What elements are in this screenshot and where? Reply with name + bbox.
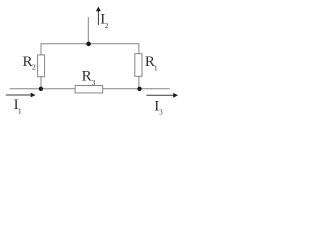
node: top junction dot [86,42,91,47]
resistor R2 [38,55,45,77]
svg-text:3: 3 [92,78,96,87]
arrow: current I2 (upward) [96,7,101,25]
wire: top horizontal bus [41,43,139,45]
svg-text:2: 2 [105,21,109,30]
label I3 [154,98,163,116]
label I1 [14,97,22,116]
wire: right branch vertical (top wire to R1 top) [138,44,140,54]
svg-text:R: R [82,69,92,85]
svg-text:2: 2 [32,62,36,71]
resistor R1 [135,54,142,77]
svg-text:1: 1 [18,107,22,116]
wire: left branch vertical (R2 bottom to bottom bus) [40,77,42,89]
resistor R3 [75,86,103,93]
arrow: current I3 (rightward, bottom-right) [147,93,179,98]
label I2 [100,12,109,30]
wire: right branch vertical (R1 bottom to bottom bus) [138,76,140,89]
node: bottom-left junction dot [39,87,43,91]
wire: bottom horizontal bus [10,88,170,90]
svg-text:1: 1 [154,64,158,73]
label R2 [23,54,37,72]
wire: left branch vertical (top wire to R2 top) [40,44,42,55]
node: bottom-right junction dot [137,87,141,91]
label R1 [145,54,158,73]
wire: I2 stub from top bus upward [87,17,89,44]
arrow: current I1 (rightward, bottom-left) [6,93,36,98]
svg-text:3: 3 [159,109,163,117]
label R3 [82,69,96,87]
svg-text:R: R [23,54,33,70]
